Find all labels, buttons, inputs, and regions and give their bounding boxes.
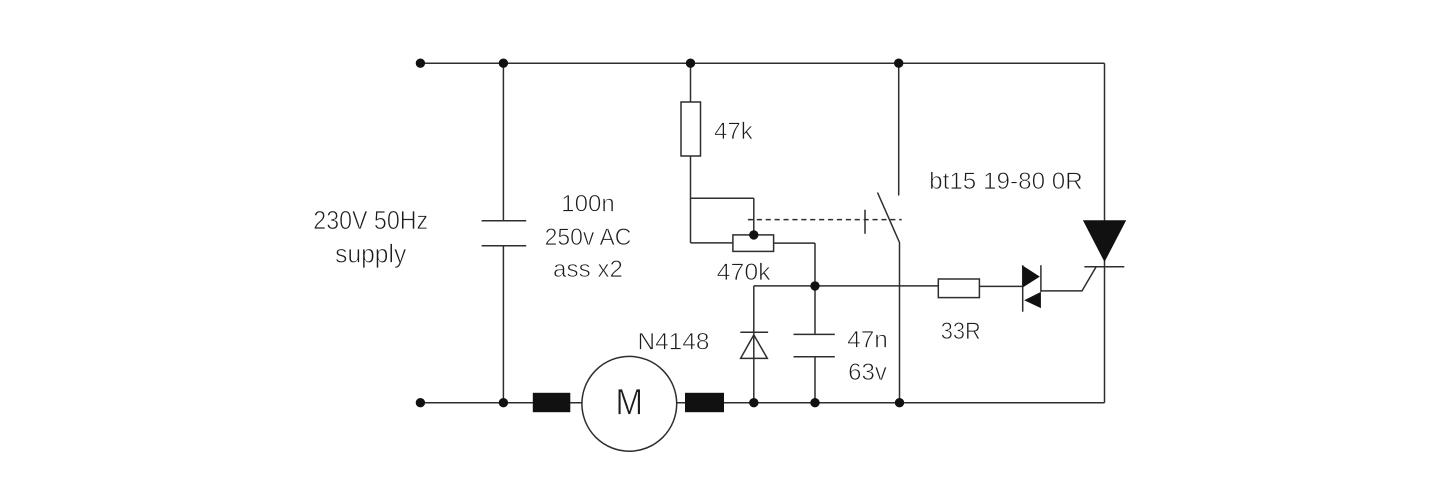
switch SW1: top contact lead: [898, 63, 900, 195]
svg-text:47k: 47k: [714, 118, 754, 145]
diac D2: lower triangle (points left): [1024, 292, 1041, 308]
wire pot right down to gate node: [814, 243, 816, 286]
wire wiper tap vertical: [753, 198, 755, 235]
svg-text:M: M: [616, 381, 644, 422]
inductor L2: right choke block: [685, 393, 724, 412]
node bottom rail / switch: [895, 398, 904, 407]
node top-left terminal: [416, 59, 425, 68]
node bottom rail / D1: [749, 398, 758, 407]
switch SW1: bottom lead to rail: [899, 243, 901, 403]
triac Q1: body triangle: [1083, 220, 1126, 262]
wire bottom rail right segment: [677, 402, 1105, 404]
node bottom rail / C2: [810, 398, 819, 407]
switch SW1: blade: [878, 193, 900, 243]
svg-text:63v: 63v: [848, 359, 887, 386]
svg-text:ass x2: ass x2: [553, 256, 623, 283]
wire 47k to pot left terminal: [691, 242, 733, 244]
wire 33R to diac: [979, 285, 1022, 287]
diac D2: left bar: [1022, 265, 1024, 312]
svg-text:250v AC: 250v AC: [545, 224, 632, 251]
wire wiper tap horizontal: [691, 197, 754, 199]
capacitor C1 100n: top plate: [482, 220, 527, 222]
diac D2: upper triangle (points right): [1023, 266, 1040, 288]
resistor R1 47k: bottom lead: [690, 156, 692, 243]
wire right vertical (triac anode/cathode leg): [1104, 63, 1106, 403]
svg-text:100n: 100n: [561, 191, 615, 218]
capacitor C1 100n: bottom plate: [482, 245, 527, 247]
diac D2: right bar: [1040, 265, 1042, 292]
wire gate node horizontal (diode corner to 33R): [754, 285, 939, 287]
svg-text:33R: 33R: [941, 318, 981, 345]
node bottom-left terminal: [416, 398, 425, 407]
svg-text:N4148: N4148: [638, 329, 710, 356]
diode D1 N4148: triangle: [741, 335, 768, 359]
node bottom rail / C1: [499, 398, 508, 407]
resistor R2 33R: body: [938, 279, 979, 298]
diode D1 N4148: cathode bar: [740, 331, 768, 333]
wire diac to triac gate: [1041, 267, 1096, 291]
wire bottom rail left segment: [420, 402, 582, 404]
triac Q1: gate bar: [1084, 266, 1124, 268]
svg-text:230V 50Hz: 230V 50Hz: [313, 205, 428, 235]
switch SW1: actuator bar: [864, 210, 866, 234]
wire pot right terminal: [774, 242, 815, 244]
capacitor C1 100n: top lead: [502, 63, 504, 221]
capacitor C2 47n: top lead: [814, 286, 816, 335]
capacitor C2 47n: top plate: [794, 333, 835, 335]
potentiometer VR1 470k: body: [733, 235, 774, 252]
wire top rail: [420, 62, 1104, 64]
node top rail / switch: [894, 59, 903, 68]
svg-text:bt15 19-80 0R: bt15 19-80 0R: [929, 168, 1083, 195]
diode D1 N4148: lead through symbol: [753, 286, 755, 403]
node top rail / C1: [499, 59, 508, 68]
capacitor C2 47n: bottom plate: [794, 356, 835, 358]
node gate RC junction: [810, 281, 819, 290]
resistor R1 47k: body: [681, 102, 701, 156]
motor M1: body circle: [582, 356, 677, 451]
node pot wiper: [749, 230, 758, 239]
svg-text:470k: 470k: [717, 259, 772, 286]
capacitor C1 100n: bottom lead: [502, 246, 504, 403]
node top rail / R1: [686, 59, 695, 68]
svg-text:supply: supply: [335, 239, 406, 269]
capacitor C2 47n: bottom lead: [814, 357, 816, 403]
inductor L1: left choke block: [533, 393, 571, 412]
wire mechanical coupling (dashed): [748, 219, 902, 221]
svg-text:47n: 47n: [847, 327, 888, 354]
resistor R1 47k: top lead: [690, 63, 692, 102]
